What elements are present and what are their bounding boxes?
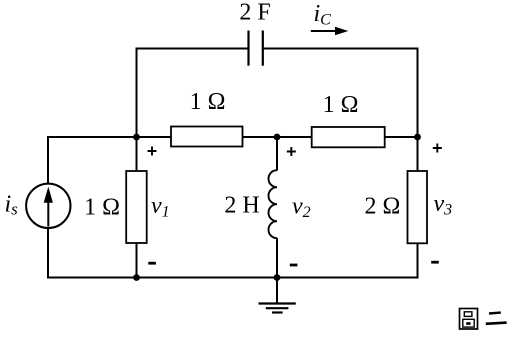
svg-text:is: is [5,192,19,219]
svg-text:2 H: 2 H [224,193,259,219]
svg-text:2 Ω: 2 Ω [364,194,400,220]
wire node A vertical [136,48,138,279]
inductor L1 2H coil [269,170,278,238]
arrow iC [311,30,336,32]
resistor 1ohm horizontal right (R3) [312,127,385,147]
svg-text:v3: v3 [434,191,453,218]
current source arrow [47,201,49,227]
svg-text:v1: v1 [151,193,170,220]
current source is (circle) [26,184,70,228]
resistor 2ohm vertical (R4, v3) [408,171,428,243]
svg-text:v2: v2 [292,194,311,221]
ground symbol [276,278,278,304]
resistor 1ohm horizontal left (R2) [171,127,243,147]
junction bottom of inductor (ground node) [274,274,281,281]
polarity minus v3 [431,261,439,264]
polarity plus v3 [433,144,442,153]
junction bottom of v1 [133,274,140,281]
wire middle node row [48,136,418,138]
caption figure 2 (CJK drawn glyphs) [460,309,507,330]
wire node B vertical upper [276,137,278,171]
polarity plus v2 [287,147,296,156]
svg-text:1 Ω: 1 Ω [190,89,226,115]
polarity minus v2 [290,264,298,267]
wire node B vertical lower [276,238,278,279]
junction node B (top of inductor) [274,134,281,141]
junction node A (top of v1) [133,134,140,141]
polarity minus v1 [148,262,156,265]
svg-text:2 F: 2 F [239,0,270,26]
polarity plus v1 [148,147,157,156]
wire left branch vertical [47,136,49,279]
capacitor C1 2F plates [247,31,249,66]
wire node C vertical [417,48,419,279]
wire top-right (capacitor to node C) [263,48,418,50]
wire top-left (node A to capacitor) [137,48,249,50]
junction node C (top of v3) [414,134,421,141]
svg-text:1 Ω: 1 Ω [323,92,359,118]
resistor 1ohm vertical (R1, v1) [126,171,147,243]
svg-text:iC: iC [314,1,332,29]
wire bottom (ground rail) [48,277,418,279]
svg-text:1 Ω: 1 Ω [84,194,120,220]
